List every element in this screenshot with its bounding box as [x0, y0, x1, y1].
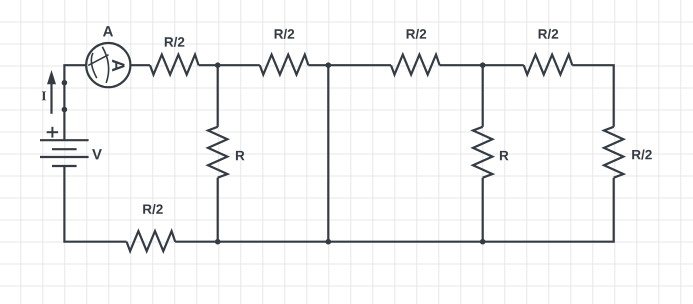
battery plus sign [47, 127, 58, 138]
ammeter A: circle body with dial arcs, needle and letter A [86, 43, 130, 87]
wire top rail between third and fourth R/2, through node 3 [440, 64, 524, 66]
label R/2 of bottom resistor [143, 204, 163, 214]
wire from battery positive plate up to top-left corner and across to ammeter left terminal [64, 65, 86, 140]
resistor R (second vertical branch) [473, 127, 492, 178]
junction dot: top node 2 [326, 62, 332, 68]
wire branch 2: plain vertical wire between top node 2 and bottom node 2 [327, 65, 329, 242]
junction dot: bottom node 1 [215, 239, 221, 245]
wire branch 1 lower segment (resistor R down to bottom node 1) [217, 178, 219, 242]
wire top rail between second and third R/2, through node 2 [308, 64, 391, 66]
wire branch 1 upper segment (top node 1 down to resistor R) [217, 65, 219, 127]
junction dot: top node 3 [480, 62, 486, 68]
wire right side from vertical R/2 down to bottom-right corner, then bottom rail to bottom R/2 [175, 178, 614, 242]
label I of current arrow [42, 91, 46, 100]
label R of first vertical resistor [236, 151, 245, 160]
junction dot: bottom node 3 [480, 239, 486, 245]
label V of battery [92, 149, 102, 159]
junction dot: left wire lower connection [62, 107, 68, 113]
resistor R/2 (first, top rail) [150, 55, 199, 75]
wire from ammeter right terminal to first R/2 resistor [130, 64, 150, 66]
label A above ammeter [103, 26, 113, 36]
label R/2 of third top resistor [407, 29, 427, 39]
wire branch 3 upper segment (top node 3 down to resistor R) [482, 65, 484, 127]
junction dot: top node 1 [215, 62, 221, 68]
current direction arrow for I [47, 70, 56, 114]
resistor R/2 (rightmost, vertical) [604, 127, 623, 178]
wire from bottom R/2 to bottom-left corner and up to battery negative plate [64, 166, 126, 242]
battery V: four plates [40, 140, 89, 166]
label R/2 of fourth top resistor [539, 29, 559, 39]
wire branch 3 lower segment (resistor R down to bottom node 3) [482, 178, 484, 242]
wire from fourth R/2 to top-right corner and down to right vertical R/2 [572, 65, 613, 127]
junction dot: left wire upper connection [62, 80, 68, 86]
label R of second vertical resistor [500, 151, 509, 160]
resistor R/2 (fourth, top rail) [524, 55, 573, 75]
resistor R (first vertical branch) [208, 127, 227, 178]
wire top rail between first and second R/2, through node 1 [199, 64, 260, 66]
resistor R/2 (third, top rail) [391, 55, 440, 75]
label R/2 of second top resistor [275, 29, 295, 39]
label R/2 of right vertical resistor [632, 150, 652, 160]
junction dot: bottom node 2 [326, 239, 332, 245]
resistor R/2 (second, top rail) [260, 55, 309, 75]
label R/2 of first top resistor [165, 37, 185, 47]
resistor R/2 (bottom) [127, 231, 176, 251]
